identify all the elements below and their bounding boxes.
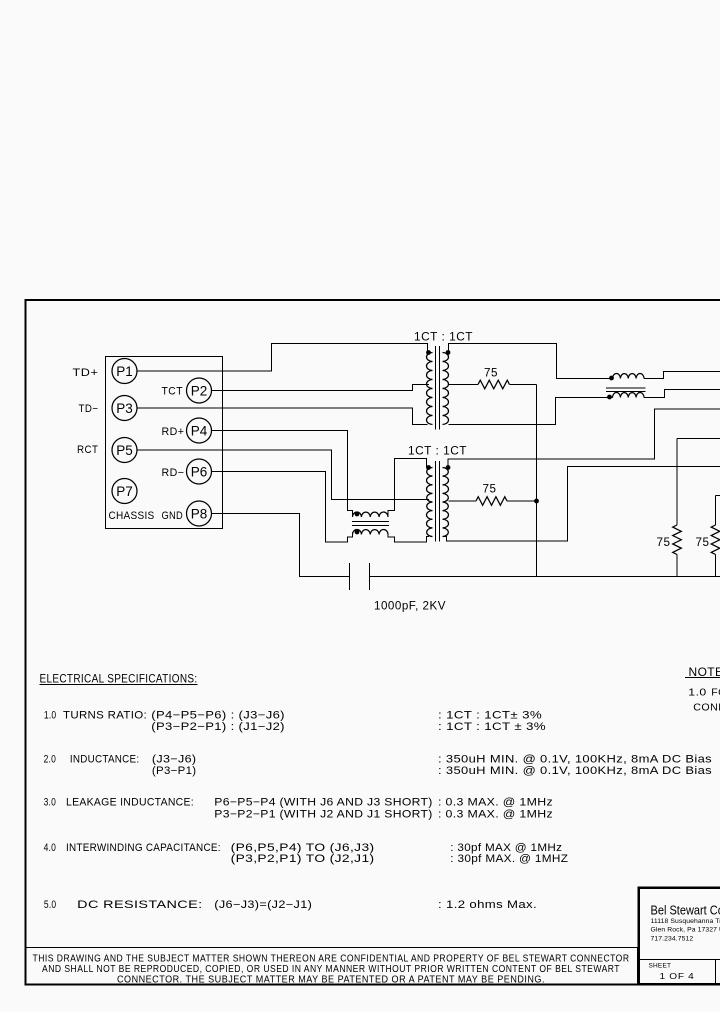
svg-text:AND SHALL NOT BE REPRODUCED, C: AND SHALL NOT BE REPRODUCED, COPIED, OR … <box>42 964 620 975</box>
svg-text:: 30pf MAX. @ 1MHZ: : 30pf MAX. @ 1MHZ <box>450 853 568 865</box>
svg-text:RD−: RD− <box>162 467 185 479</box>
svg-text:11118 Susquehanna Trail South: 11118 Susquehanna Trail South <box>651 918 720 925</box>
svg-text:4.0: 4.0 <box>44 842 57 854</box>
svg-text:DC RESISTANCE:: DC RESISTANCE: <box>77 899 202 911</box>
svg-text:(J3−J6): (J3−J6) <box>152 754 197 766</box>
svg-text:SHEET: SHEET <box>649 963 672 970</box>
svg-text:TD−: TD− <box>79 403 99 415</box>
svg-text:3.0: 3.0 <box>44 797 57 809</box>
svg-text:75: 75 <box>696 537 710 549</box>
svg-text:P2: P2 <box>191 383 208 398</box>
svg-text:LEAKAGE INDUCTANCE:: LEAKAGE INDUCTANCE: <box>66 797 194 809</box>
svg-text:FO: FO <box>711 687 720 699</box>
svg-text:P1: P1 <box>116 364 133 379</box>
svg-text:P5: P5 <box>116 443 133 458</box>
svg-text:TCT: TCT <box>162 386 184 398</box>
svg-text:: 1.2 ohms Max.: : 1.2 ohms Max. <box>438 899 537 911</box>
svg-text:INTERWINDING CAPACITANCE:: INTERWINDING CAPACITANCE: <box>66 842 221 854</box>
svg-text:2.0: 2.0 <box>44 754 57 766</box>
svg-text:: 0.3 MAX. @ 1MHz: : 0.3 MAX. @ 1MHz <box>438 797 553 809</box>
svg-text:(P3−P2−P1) : (J1−J2): (P3−P2−P1) : (J1−J2) <box>151 721 285 733</box>
svg-text:(P3,P2,P1) TO (J2,J1): (P3,P2,P1) TO (J2,J1) <box>231 853 375 865</box>
svg-text:5.0: 5.0 <box>44 899 57 911</box>
svg-text:(P3−P1): (P3−P1) <box>152 765 197 777</box>
svg-text:TURNS RATIO:: TURNS RATIO: <box>63 710 147 722</box>
svg-text:: 0.3 MAX. @ 1MHz: : 0.3 MAX. @ 1MHz <box>438 809 553 821</box>
svg-text:P3−P2−P1 (WITH J2 AND J1 SHORT: P3−P2−P1 (WITH J2 AND J1 SHORT) <box>214 809 432 821</box>
svg-text:1000pF, 2KV: 1000pF, 2KV <box>374 601 446 613</box>
svg-text:75: 75 <box>657 537 671 549</box>
svg-text:(P4−P5−P6) : (J3−J6): (P4−P5−P6) : (J3−J6) <box>151 710 285 722</box>
svg-text:Glen Rock, Pa 17327 USA: Glen Rock, Pa 17327 USA <box>651 927 720 934</box>
svg-text:INDUCTANCE:: INDUCTANCE: <box>70 754 139 766</box>
svg-text:P6−P5−P4 (WITH J6 AND J3 SHORT: P6−P5−P4 (WITH J6 AND J3 SHORT) <box>214 797 432 809</box>
svg-text:P8: P8 <box>191 506 208 521</box>
svg-text:CHASSIS: CHASSIS <box>109 510 155 522</box>
svg-text:1.0: 1.0 <box>688 687 706 699</box>
svg-text:TD+: TD+ <box>73 367 99 379</box>
svg-text:ELECTRICAL SPECIFICATIONS:: ELECTRICAL SPECIFICATIONS: <box>40 672 198 686</box>
svg-text:1CT : 1CT: 1CT : 1CT <box>414 332 473 344</box>
svg-text:(J6−J3)=(J2−J1): (J6−J3)=(J2−J1) <box>214 899 312 911</box>
svg-text:717.234.7512: 717.234.7512 <box>651 936 694 943</box>
svg-text:Bel Stewart Connector: Bel Stewart Connector <box>651 904 720 918</box>
svg-text:RCT: RCT <box>77 444 99 456</box>
svg-text:P7: P7 <box>116 484 133 499</box>
svg-text:75: 75 <box>483 484 497 496</box>
svg-text:P4: P4 <box>191 423 208 438</box>
svg-text:: 350uH MIN. @ 0.1V, 100KHz, 8: : 350uH MIN. @ 0.1V, 100KHz, 8mA DC Bias <box>438 754 712 766</box>
svg-text:: 1CT : 1CT± 3%: : 1CT : 1CT± 3% <box>438 710 542 722</box>
svg-text:RD+: RD+ <box>162 426 185 438</box>
svg-text:1CT : 1CT: 1CT : 1CT <box>408 446 467 458</box>
svg-text:1 OF 4: 1 OF 4 <box>660 971 695 981</box>
svg-text:1.0: 1.0 <box>44 710 57 722</box>
svg-text:CONN: CONN <box>693 702 720 714</box>
svg-text:NOTES: NOTES <box>689 665 720 679</box>
svg-text:P3: P3 <box>116 401 133 416</box>
svg-text:THIS DRAWING AND THE SUBJECT M: THIS DRAWING AND THE SUBJECT MATTER SHOW… <box>33 954 630 965</box>
svg-text:CONNECTOR. THE SUBJECT MATTER: CONNECTOR. THE SUBJECT MATTER MAY BE PAT… <box>117 975 545 986</box>
svg-text:: 350uH MIN. @ 0.1V, 100KHz, 8: : 350uH MIN. @ 0.1V, 100KHz, 8mA DC Bias <box>438 765 712 777</box>
svg-text:P6: P6 <box>191 464 208 479</box>
svg-text:GND: GND <box>162 510 184 522</box>
svg-text:: 1CT : 1CT ± 3%: : 1CT : 1CT ± 3% <box>438 721 546 733</box>
svg-text:75: 75 <box>484 368 498 380</box>
